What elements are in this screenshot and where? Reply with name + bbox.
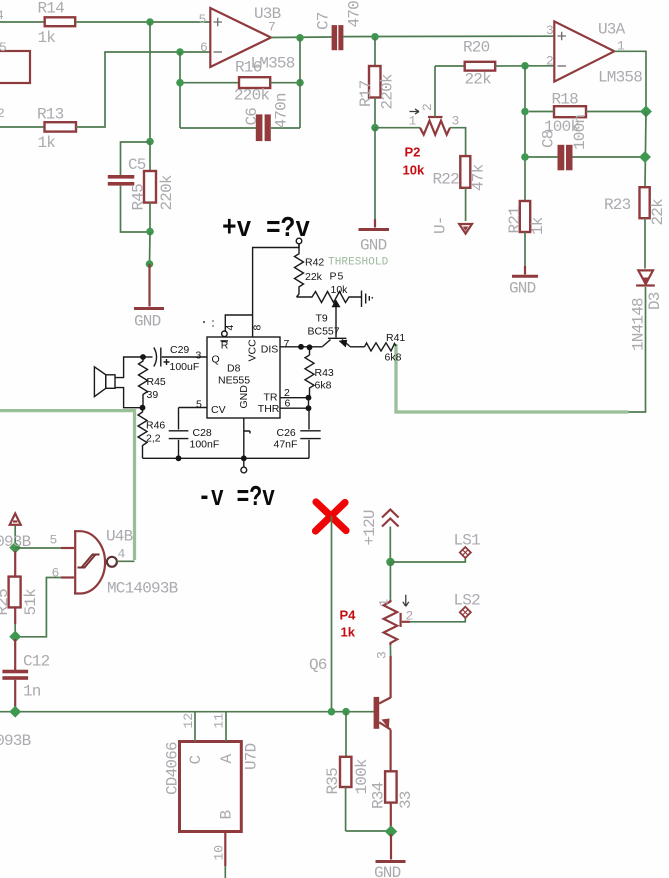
wire pin4 input to R14: [0, 21, 45, 23]
pin 2 TR stub: [280, 387, 309, 399]
wire R22 to U-: [465, 188, 467, 221]
node R18 right: [640, 106, 652, 118]
svg-text:11: 11: [212, 713, 227, 729]
svg-text:R14: R14: [38, 0, 65, 18]
svg-text:B: B: [218, 811, 236, 820]
node GND pin rail: [241, 455, 247, 461]
resistor R17: [357, 37, 397, 128]
wire T9 emitter to R41: [350, 346, 365, 348]
svg-text:22k: 22k: [305, 271, 323, 283]
supply symbol +12V: [361, 510, 399, 559]
op-amp U3A: [546, 21, 642, 87]
svg-text:T9: T9: [316, 313, 328, 325]
ground symbol under R17: [359, 219, 390, 255]
nand gate U4B MC14093B: [74, 528, 178, 598]
svg-text:39: 39: [147, 389, 159, 401]
resistor R20: [435, 39, 554, 89]
svg-text:100n: 100n: [571, 115, 589, 150]
capacitor C26: [274, 408, 321, 458]
svg-text:LS1: LS1: [454, 532, 481, 550]
svg-text:4: 4: [0, 8, 4, 23]
node R18 left: [521, 108, 529, 116]
svg-text:R25: R25: [0, 589, 12, 616]
wire pin6: [19, 566, 74, 637]
node junction R14/U3B: [146, 18, 154, 26]
svg-text:1k: 1k: [341, 625, 356, 640]
node junction pin6: [176, 48, 184, 56]
wire pin2 input to R13: [0, 126, 45, 128]
wire pin5: [15, 533, 74, 549]
svg-text:C: C: [187, 756, 205, 765]
wire T9 collector to DIS node: [301, 346, 323, 348]
supply symbol U-: [432, 216, 473, 234]
wire R13 to U3B pin6: [76, 52, 210, 127]
svg-text:22k: 22k: [649, 199, 667, 226]
ground symbol bottom: [374, 834, 406, 878]
wire pin2 column: [524, 66, 526, 201]
wire node to P2 pin1: [375, 127, 420, 129]
node rail/X: [328, 708, 336, 716]
resistor R45 220k: [130, 142, 177, 232]
resistor R16: [234, 59, 270, 105]
svg-text:3: 3: [375, 651, 390, 659]
svg-text:TR: TR: [264, 392, 278, 404]
cut-off IC box at left edge: [0, 40, 30, 83]
wire -v rail: [143, 457, 310, 459]
svg-text:U3A: U3A: [598, 21, 626, 39]
node above GND: [146, 260, 154, 268]
resistor R35: [324, 712, 371, 831]
svg-text:GND: GND: [374, 864, 401, 878]
wire to LS1: [390, 557, 465, 562]
capacitor C7: [315, 0, 364, 50]
wire R16 to output node: [270, 82, 300, 84]
svg-text:C8: C8: [540, 130, 558, 148]
pin 11 stub: [212, 712, 227, 742]
svg-text:R23: R23: [604, 196, 631, 214]
svg-text:P2: P2: [405, 145, 421, 160]
wire output node down: [299, 38, 301, 128]
resistor R42: [295, 244, 325, 297]
svg-text:2,2: 2,2: [146, 433, 161, 445]
svg-text:1: 1: [377, 599, 392, 607]
svg-text:2: 2: [420, 103, 435, 111]
capacitor C8: [525, 115, 645, 171]
svg-text:CV: CV: [211, 404, 226, 416]
svg-text:GND: GND: [509, 280, 536, 298]
node R43 top: [307, 344, 313, 350]
svg-text:6k8: 6k8: [315, 380, 332, 392]
svg-text:4: 4: [118, 547, 126, 562]
svg-text:R46: R46: [146, 420, 165, 432]
svg-text:R34: R34: [370, 782, 388, 809]
wire D3 down to pale net corner: [628, 287, 646, 412]
node THR: [306, 405, 312, 411]
svg-text:D3: D3: [646, 292, 664, 310]
svg-text:GND: GND: [134, 313, 161, 331]
svg-text:1k: 1k: [38, 134, 56, 152]
svg-text:1n: 1n: [23, 683, 41, 701]
node R34/R35/GND (diamond): [385, 825, 397, 837]
wire +v distribution to pins 8 and 4: [253, 244, 299, 337]
node speaker top: [140, 354, 146, 360]
pin 10 stub: [212, 832, 227, 878]
svg-text:LM358: LM358: [598, 69, 642, 87]
wire P4 wiper to LS2: [410, 617, 465, 622]
speaker: [94, 357, 143, 408]
node terminal +v: [296, 238, 302, 244]
stray dots: [203, 320, 214, 327]
resistor R45 39: [139, 357, 166, 408]
svg-text:R45: R45: [130, 184, 148, 211]
svg-text:47k: 47k: [470, 164, 488, 191]
svg-text:R42: R42: [305, 257, 324, 269]
capacitor C29: [143, 344, 207, 373]
ground symbol left: [134, 264, 164, 331]
svg-text:THR: THR: [258, 403, 280, 415]
transistor Q6: [374, 645, 391, 771]
pale highlighted net U4B output: [0, 411, 135, 560]
resistor R22: [433, 156, 488, 191]
wire C7 to U3A pin3: [344, 35, 555, 37]
wire pin4 branch: [225, 315, 252, 332]
svg-text:2: 2: [546, 54, 554, 69]
svg-text:6: 6: [200, 40, 208, 55]
node rail/R35: [342, 708, 350, 716]
svg-text:C28: C28: [193, 427, 212, 439]
svg-text:D8: D8: [227, 362, 241, 374]
resistor R34: [370, 771, 416, 828]
svg-text:NE555: NE555: [218, 375, 250, 387]
svg-text:6k8: 6k8: [385, 352, 402, 364]
svg-text:100nF: 100nF: [190, 439, 220, 451]
svg-text:R41: R41: [386, 332, 405, 344]
svg-text:R35: R35: [324, 768, 342, 795]
svg-text:R20: R20: [463, 39, 490, 57]
svg-text:Q: Q: [212, 354, 220, 366]
svg-text:GND: GND: [360, 237, 387, 255]
op-amp U3B: [199, 5, 295, 73]
svg-text:C26: C26: [277, 427, 296, 439]
555 GND pin stub: [244, 418, 250, 458]
wire pin4 to pale net: [117, 560, 135, 562]
svg-text:R13: R13: [37, 106, 64, 124]
wire TR-THR link: [308, 398, 310, 409]
svg-text:1: 1: [409, 114, 417, 129]
pin 7 DIS stub: [280, 338, 301, 350]
transistor T9 BC557: [308, 313, 351, 348]
svg-text:C29: C29: [170, 344, 189, 356]
node TR: [306, 395, 312, 401]
svg-text:6: 6: [52, 566, 60, 581]
svg-text:10k: 10k: [403, 163, 425, 178]
svg-text:33: 33: [397, 791, 415, 809]
node C8 right: [639, 151, 651, 163]
ground symbol under R21: [509, 232, 538, 298]
resistor R18: [529, 91, 646, 137]
svg-text:2: 2: [0, 106, 5, 121]
IC U7D CD4066 box: [164, 742, 261, 832]
svg-text:22k: 22k: [465, 71, 492, 89]
resistor R25: [0, 551, 40, 633]
svg-text:R17: R17: [357, 80, 375, 107]
svg-text:8: 8: [252, 325, 264, 331]
pale highlighted wire net: [396, 344, 629, 412]
wire U3B output to C7: [271, 36, 332, 39]
wire R35 bottom to node: [346, 830, 387, 832]
node +12V / LS1 / P4: [386, 558, 394, 566]
pin 4 inverting circle: [222, 331, 228, 337]
svg-text:220k: 220k: [158, 175, 176, 210]
node C5/R45 top: [146, 138, 154, 146]
pin 6 THR stub: [280, 398, 309, 410]
diode D3 1N4148: [630, 270, 665, 351]
svg-text:51k: 51k: [22, 589, 40, 616]
svg-text:A: A: [218, 754, 236, 764]
node speaker bottom: [140, 405, 146, 411]
resistor R23: [604, 187, 667, 225]
resistor R46 2,2: [138, 408, 165, 459]
wire U3A output down to R18: [614, 51, 646, 111]
svg-text:C6: C6: [243, 108, 261, 126]
svg-text:+12U: +12U: [361, 510, 379, 545]
svg-text:5: 5: [0, 40, 7, 55]
svg-text:10: 10: [212, 845, 227, 861]
resistor R43: [305, 347, 334, 398]
svg-text:470n: 470n: [346, 0, 364, 28]
svg-text:3: 3: [546, 23, 554, 38]
node feedback left: [176, 79, 184, 87]
wire R18 right node down: [645, 112, 646, 188]
svg-text:220k: 220k: [234, 87, 269, 105]
svg-text:100k: 100k: [353, 759, 371, 794]
node U3B output: [296, 34, 304, 42]
potentiometer P2: [403, 66, 466, 178]
svg-text:P4: P4: [340, 608, 357, 623]
svg-text:3: 3: [452, 114, 460, 129]
capacitor C6: [180, 93, 300, 141]
node U3A pin2: [521, 62, 529, 70]
svg-text:VCC: VCC: [246, 339, 258, 362]
svg-text:6: 6: [285, 398, 291, 410]
svg-text:220k: 220k: [379, 74, 397, 109]
potentiometer P4: [340, 562, 414, 659]
svg-text:R18: R18: [552, 91, 579, 109]
svg-text:10k: 10k: [331, 284, 349, 296]
wire horizontal rail to Q6 base: [0, 711, 374, 713]
svg-text:C7: C7: [315, 12, 333, 30]
resistor R13: [37, 106, 76, 153]
svg-text:U7D: U7D: [243, 743, 261, 770]
node C8 left: [521, 153, 529, 161]
ground symbol P5 (black): [362, 291, 374, 308]
svg-text:1k: 1k: [529, 217, 547, 235]
node C7/R17: [371, 33, 379, 41]
svg-text:LS2: LS2: [454, 592, 481, 610]
svg-text:P5: P5: [330, 271, 345, 283]
node U4B pin5 net (diamond): [9, 542, 21, 554]
svg-text:U3B: U3B: [254, 5, 281, 23]
node C5/R45 bottom: [146, 228, 154, 236]
capacitor C5: [108, 142, 150, 232]
resistor R41: [365, 332, 406, 364]
svg-text:R22: R22: [433, 171, 460, 189]
resistor R21: [506, 201, 547, 235]
svg-text:U4B: U4B: [106, 528, 133, 546]
terminal -v: [241, 458, 247, 473]
pin pad LS1: [454, 532, 481, 559]
svg-text:12: 12: [181, 713, 196, 729]
svg-text:R21: R21: [506, 207, 524, 234]
wire feedback row to R16: [180, 52, 239, 128]
svg-text:R16: R16: [235, 59, 262, 77]
pin 5 CV stub: [179, 399, 208, 411]
node C28 rail: [176, 455, 182, 461]
svg-text:1k: 1k: [38, 29, 56, 47]
svg-text:47nF: 47nF: [274, 439, 298, 451]
wire R14 node down to C5/R45: [149, 22, 151, 142]
svg-text:C12: C12: [23, 653, 50, 671]
node feedback right: [296, 79, 304, 87]
svg-text:100uF: 100uF: [170, 361, 200, 373]
capacitor C28: [169, 408, 220, 459]
red X mark: [316, 502, 347, 531]
svg-text:-v =?v: -v =?v: [198, 481, 275, 514]
wire X net down to rail: [331, 516, 333, 712]
svg-text:CD4066: CD4066: [164, 742, 182, 795]
node R17 bottom: [371, 124, 379, 132]
svg-text:BC557: BC557: [308, 326, 340, 338]
svg-text:4: 4: [224, 325, 236, 331]
node rail/C12 (diamond): [9, 706, 21, 718]
wire R23 to D3: [644, 218, 646, 268]
svg-text:Q6: Q6: [309, 656, 327, 674]
svg-text:U-: U-: [432, 216, 450, 234]
resistor R14: [38, 0, 76, 47]
node DIS: [298, 344, 304, 350]
wire R14 to U3B pin5: [75, 21, 210, 23]
supply arrow VCC U4B: [10, 514, 21, 545]
pin pad LS2: [454, 592, 481, 618]
svg-text:MC14093B: MC14093B: [0, 732, 31, 750]
potentiometer P5: [297, 271, 362, 338]
svg-text:THRESHOLD: THRESHOLD: [328, 257, 389, 269]
svg-text:5: 5: [196, 399, 202, 411]
IC D8 NE555 box: [207, 337, 280, 418]
svg-text:R43: R43: [315, 367, 334, 379]
svg-text:GND: GND: [238, 385, 250, 409]
svg-text:5: 5: [50, 533, 58, 548]
svg-text:DIS: DIS: [261, 343, 279, 355]
svg-text:5: 5: [199, 12, 207, 27]
wire node to GND: [374, 128, 376, 219]
svg-text:R45: R45: [147, 376, 166, 388]
svg-text:MC14093B: MC14093B: [107, 580, 178, 598]
svg-text:3: 3: [196, 350, 202, 362]
capacitor C12: [2, 639, 49, 708]
svg-text:7: 7: [284, 338, 290, 350]
pin 12 stub: [181, 712, 196, 742]
wire down to GND node: [149, 232, 152, 264]
node R25/C12 (diamond): [9, 631, 21, 643]
svg-text:470n: 470n: [273, 93, 291, 128]
